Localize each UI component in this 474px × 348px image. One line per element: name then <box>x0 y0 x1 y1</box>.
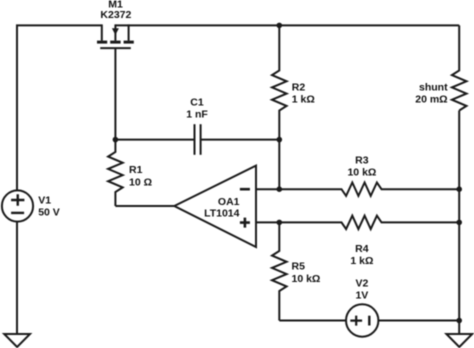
svg-text:1 kΩ: 1 kΩ <box>292 93 315 105</box>
label R1 10 Ohm <box>129 164 152 189</box>
wire M1 gate down to node <box>114 48 116 140</box>
svg-text:20 mΩ: 20 mΩ <box>415 94 447 106</box>
svg-text:1 kΩ: 1 kΩ <box>350 255 373 267</box>
capacitor C1 <box>195 124 201 155</box>
svg-text:LT1014: LT1014 <box>204 208 240 220</box>
node R4 right rail <box>456 220 462 226</box>
svg-text:10 kΩ: 10 kΩ <box>292 273 321 285</box>
voltage source V2 <box>346 304 378 336</box>
resistor shunt <box>452 25 467 110</box>
wire op-amp plus input to node <box>256 221 279 223</box>
node R3 right rail <box>456 186 462 192</box>
svg-text:1 nF: 1 nF <box>186 109 208 121</box>
transistor M1 <box>97 24 134 48</box>
svg-text:V2: V2 <box>355 278 368 290</box>
label V1 50 V <box>38 195 60 219</box>
ground right <box>446 334 472 347</box>
resistor R5 <box>272 222 287 320</box>
label R4 1 kOhm <box>350 243 373 267</box>
label C1 1 nF <box>186 97 208 121</box>
svg-text:R2: R2 <box>292 82 306 94</box>
svg-text:10 kΩ: 10 kΩ <box>347 167 376 179</box>
wire R1 bottom to op-amp output <box>115 205 174 207</box>
svg-text:OA1: OA1 <box>218 196 240 208</box>
svg-text:R5: R5 <box>292 260 306 272</box>
wire C1 right plate to R2 node <box>201 139 280 141</box>
wire V1 minus down to ground <box>16 222 18 334</box>
label R2 1 kOhm <box>292 82 315 106</box>
voltage source V1 <box>2 190 33 221</box>
wire right rail <box>458 111 460 335</box>
node minus input <box>277 186 283 192</box>
node V2 right rail <box>456 318 462 324</box>
svg-text:C1: C1 <box>190 97 204 109</box>
svg-text:shunt: shunt <box>419 81 448 93</box>
svg-text:R3: R3 <box>355 154 369 166</box>
wire op-amp minus input to node <box>256 188 279 190</box>
wire top rail M1 drain to top-right corner <box>115 24 459 26</box>
resistor R1 <box>108 140 123 206</box>
label shunt 20 mOhm <box>415 81 448 105</box>
resistor R3 <box>279 183 459 196</box>
resistor R2 <box>272 25 287 139</box>
label OA1 LT1014 <box>204 196 240 219</box>
node gate / R1 / C1 <box>113 137 119 143</box>
svg-text:R4: R4 <box>355 243 369 255</box>
ground left <box>4 334 30 347</box>
svg-text:V1: V1 <box>38 195 51 207</box>
svg-text:R1: R1 <box>129 164 143 176</box>
label R3 10 kOhm <box>347 154 376 178</box>
resistor R4 <box>279 216 459 229</box>
svg-text:K2372: K2372 <box>100 9 131 21</box>
op-amp OA1 <box>174 166 256 247</box>
wire node to C1 left plate <box>115 139 194 141</box>
svg-text:1V: 1V <box>355 290 368 302</box>
wire V2 right to rail <box>378 320 459 322</box>
wire R2/C1 node down to minus node <box>278 140 280 190</box>
wire V1+ up and to M1 source <box>17 25 102 190</box>
svg-text:10 Ω: 10 Ω <box>129 176 152 188</box>
node plus input <box>277 220 283 226</box>
node top rail R2 <box>277 23 283 29</box>
wire R5 bottom to V2 <box>279 320 346 322</box>
node R2 bottom / C1 <box>277 137 283 143</box>
label R5 10 kOhm <box>292 260 321 284</box>
label M1 K2372 <box>100 0 131 21</box>
svg-text:50 V: 50 V <box>38 207 60 219</box>
label V2 1V <box>355 278 368 302</box>
